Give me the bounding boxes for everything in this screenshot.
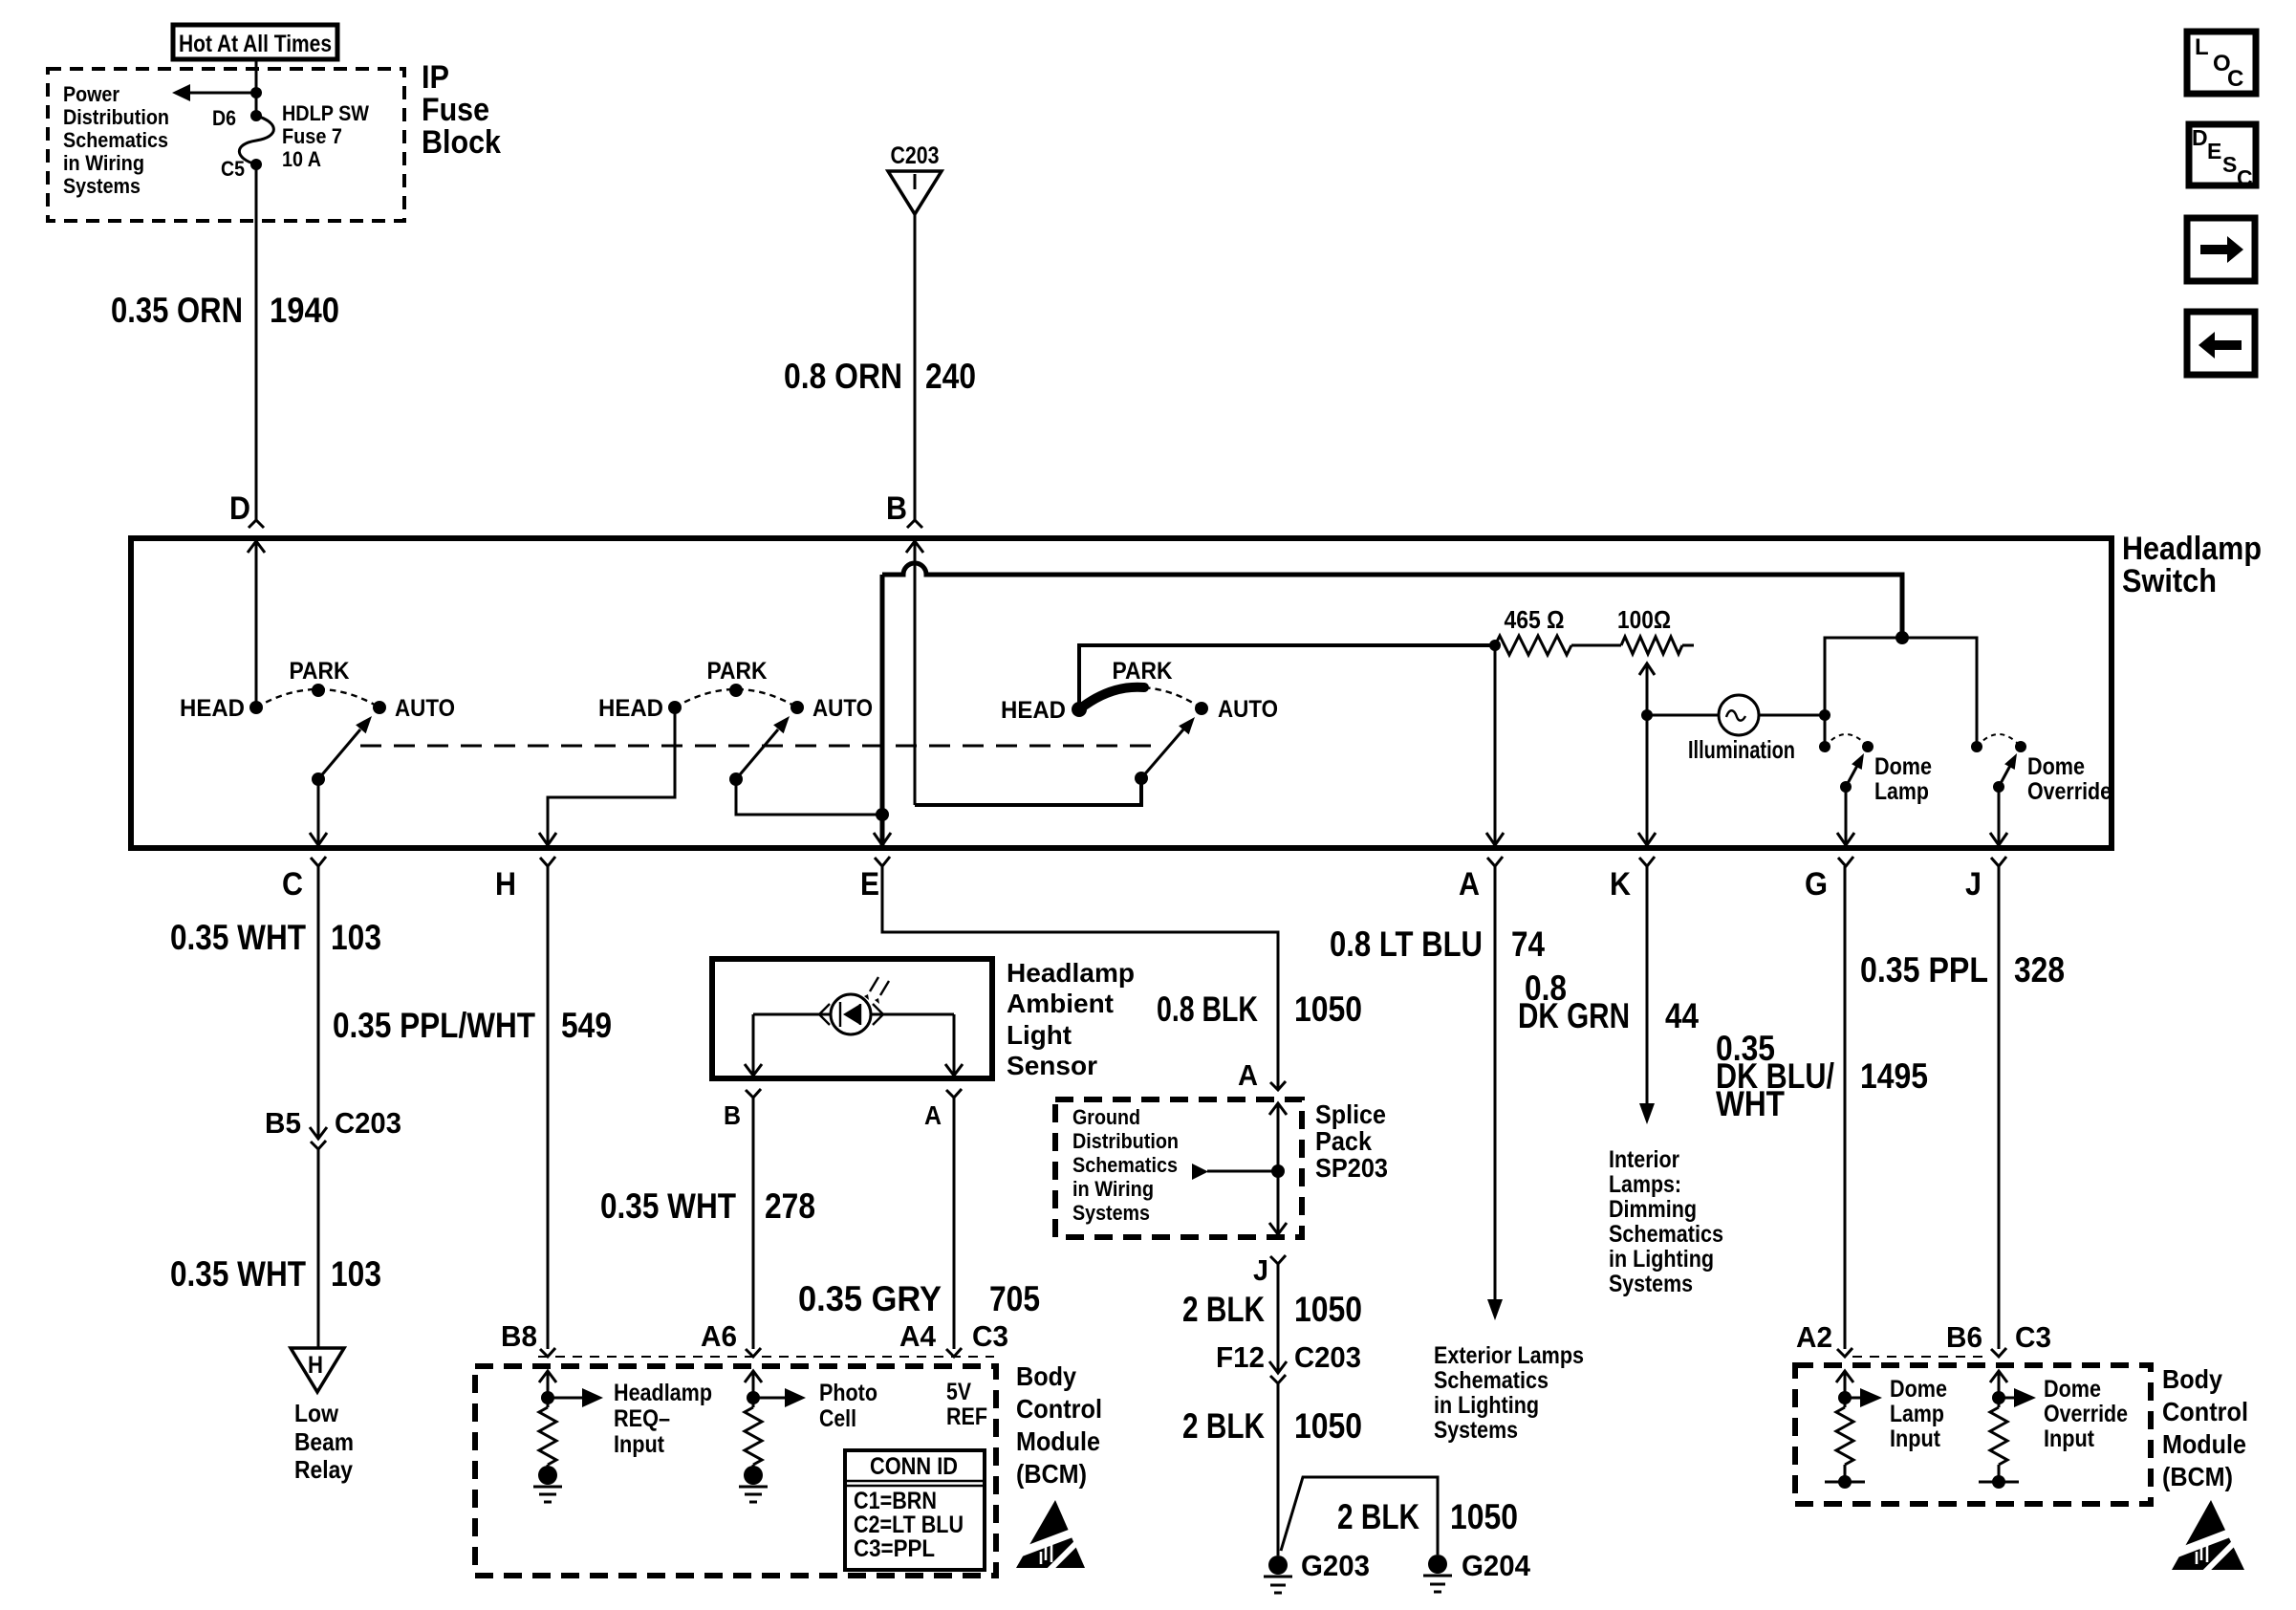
svg-text:328: 328 — [2014, 950, 2065, 990]
wire dome override wiper to terminal J — [1998, 787, 2001, 845]
BCM headlamp REQ input circuit — [533, 1371, 603, 1502]
switch 2 dashed arc — [675, 689, 797, 707]
BCM connector fork B6 — [1991, 1348, 2006, 1357]
wire label 0.35 WHT | 103 — [170, 918, 381, 957]
svg-text:Schematics: Schematics — [63, 128, 168, 152]
svg-text:1050: 1050 — [1294, 1290, 1362, 1329]
switch 1 AUTO contact — [373, 695, 455, 722]
fuse name label — [282, 101, 369, 171]
wire label 0.8 DK GRN | 44 — [1518, 968, 1699, 1035]
toolbar DESC button — [2189, 124, 2256, 190]
svg-text:Pack: Pack — [1315, 1126, 1372, 1156]
switch 1 dashed arc — [256, 689, 379, 707]
svg-text:Systems: Systems — [63, 174, 141, 198]
illumination lamp — [1647, 695, 1825, 764]
wire 2 BLK 1050 (F12 to G203) — [1277, 1383, 1280, 1556]
IP Fuse Block label — [422, 59, 501, 161]
sensor pin B internal arrow — [745, 1014, 762, 1076]
svg-text:B: B — [724, 1100, 741, 1130]
svg-text:2 BLK: 2 BLK — [1182, 1290, 1265, 1329]
svg-text:Ambient: Ambient — [1007, 989, 1114, 1018]
wire 0.35 ORN 1940 from fuse to terminal D — [255, 164, 258, 520]
svg-text:Splice: Splice — [1315, 1099, 1386, 1129]
svg-text:100Ω: 100Ω — [1617, 605, 1671, 634]
BCM connector fork B8 — [540, 1348, 555, 1357]
switch 3 dashed arc — [1144, 687, 1202, 708]
svg-text:C203: C203 — [1294, 1340, 1361, 1374]
BCM photo cell input circuit — [739, 1371, 806, 1502]
Ground Distribution note — [1072, 1105, 1179, 1225]
terminal G label and fork — [1805, 857, 1853, 903]
svg-text:E: E — [860, 866, 879, 903]
svg-text:Power: Power — [63, 82, 119, 106]
svg-text:B5: B5 — [265, 1106, 301, 1140]
svg-text:1050: 1050 — [1294, 1406, 1362, 1446]
BCM connector fork A4 — [946, 1348, 962, 1357]
5V REF label — [946, 1379, 987, 1430]
splice pack pin J label and fork — [1253, 1253, 1286, 1287]
sensor label — [1007, 958, 1135, 1080]
svg-text:Distribution: Distribution — [63, 105, 169, 129]
wire 0.35 GRY 705 (sensor A to BCM A4) — [953, 1098, 956, 1349]
svg-text:S: S — [2222, 152, 2237, 177]
terminal C arrow to edge — [310, 833, 327, 845]
svg-text:Fuse: Fuse — [422, 92, 489, 128]
svg-text:44: 44 — [1665, 996, 1699, 1035]
wire 0.35 WHT 278 (sensor B to BCM A6) — [752, 1098, 755, 1349]
sensor pin A fork and label — [924, 1089, 962, 1130]
IP Fuse Block dashed box — [48, 69, 404, 221]
Body Control Module label (left) — [1016, 1361, 1102, 1489]
svg-text:B6: B6 — [1946, 1320, 1982, 1354]
Splice Pack SP203 dashed box — [1055, 1099, 1302, 1237]
svg-text:AUTO: AUTO — [812, 695, 873, 722]
Body Control Module label (right) — [2162, 1364, 2248, 1491]
terminal A label and fork — [1459, 857, 1503, 903]
svg-text:HEAD: HEAD — [180, 695, 245, 722]
node K junction dot — [1641, 709, 1653, 721]
BCM dome override input circuit — [1979, 1371, 2036, 1489]
svg-text:WHT: WHT — [1716, 1084, 1785, 1123]
switch 1 wiper — [312, 716, 372, 786]
ground G204 — [1423, 1549, 1531, 1592]
svg-text:Fuse 7: Fuse 7 — [282, 124, 342, 148]
wire 0.35 PPL 328 (terminal J to BCM B6) — [1998, 866, 2001, 1349]
internal feed line to dome switches with hop over B — [882, 563, 1902, 638]
dome lamp input label — [1890, 1376, 1947, 1452]
BCM connector dashed line (right) — [1852, 1356, 1990, 1358]
svg-text:C: C — [2237, 165, 2253, 190]
svg-text:AUTO: AUTO — [395, 695, 455, 722]
terminal E label and fork — [860, 857, 890, 903]
svg-text:Schematics: Schematics — [1072, 1153, 1178, 1177]
terminal E arrow to edge — [874, 833, 891, 845]
Headlamp Switch box — [131, 538, 2112, 848]
svg-text:Lamps:: Lamps: — [1609, 1171, 1681, 1198]
svg-text:H: H — [308, 1352, 323, 1379]
toolbar left-arrow button — [2187, 312, 2255, 375]
wire node K to terminal K — [1646, 715, 1649, 845]
svg-text:Override: Override — [2027, 778, 2112, 805]
resistor 100 ohm (potentiometer) — [1617, 605, 1694, 654]
svg-text:G203: G203 — [1301, 1549, 1370, 1582]
svg-text:D: D — [2192, 125, 2208, 150]
svg-text:in Lighting: in Lighting — [1609, 1246, 1714, 1273]
svg-text:PARK: PARK — [1113, 658, 1173, 685]
svg-text:0.35 PPL/WHT: 0.35 PPL/WHT — [333, 1006, 535, 1045]
svg-text:PARK: PARK — [290, 658, 350, 685]
svg-text:240: 240 — [925, 357, 976, 396]
BCM dome lamp input circuit — [1825, 1371, 1882, 1489]
svg-text:A: A — [924, 1100, 942, 1130]
svg-text:A: A — [1238, 1058, 1258, 1092]
svg-text:C2=LT BLU: C2=LT BLU — [854, 1512, 964, 1538]
svg-text:Input: Input — [1890, 1425, 1941, 1452]
svg-text:Light: Light — [1007, 1020, 1072, 1050]
svg-text:0.8 ORN: 0.8 ORN — [784, 357, 902, 396]
toolbar right-arrow button — [2187, 218, 2255, 281]
wire label 0.35 WHT | 103 — [170, 1254, 381, 1294]
svg-text:CONN ID: CONN ID — [870, 1453, 958, 1480]
wire label 0.8 LT BLU | 74 — [1330, 925, 1545, 964]
svg-text:A6: A6 — [701, 1319, 737, 1353]
splice junction dot and arrow marker — [1192, 1164, 1285, 1180]
svg-text:(BCM): (BCM) — [2162, 1462, 2233, 1491]
ground G203 — [1264, 1549, 1370, 1593]
svg-text:2 BLK: 2 BLK — [1337, 1497, 1419, 1536]
wire switch 2 HEAD to terminal H — [548, 707, 675, 845]
wire 0.35 DK BLU/WHT 1495 (terminal G to BCM A2) — [1844, 866, 1847, 1349]
svg-text:(BCM): (BCM) — [1016, 1459, 1087, 1489]
wire label 0.35 DK BLU/WHT | 1495 — [1716, 1029, 1928, 1123]
svg-text:0.8 BLK: 0.8 BLK — [1157, 990, 1258, 1029]
svg-text:PARK: PARK — [707, 658, 768, 685]
svg-text:Control: Control — [2162, 1397, 2248, 1426]
svg-text:103: 103 — [331, 1254, 381, 1294]
resistor 465 ohm — [1495, 605, 1571, 655]
svg-text:0.35 WHT: 0.35 WHT — [600, 1186, 736, 1226]
wire label 0.35 PPL | 328 — [1860, 950, 2065, 990]
svg-text:C: C — [2227, 66, 2243, 92]
terminal D connector fork — [249, 520, 264, 528]
svg-text:A2: A2 — [1796, 1320, 1832, 1354]
svg-text:Override: Override — [2044, 1401, 2128, 1427]
svg-text:549: 549 — [561, 1006, 612, 1045]
svg-text:Beam: Beam — [294, 1427, 354, 1456]
sensor pin A internal arrow — [945, 1014, 963, 1076]
svg-text:HEAD: HEAD — [598, 695, 663, 722]
wire label 0.35 GRY | 705 — [798, 1279, 1040, 1318]
svg-text:Module: Module — [2162, 1429, 2246, 1459]
wire from Hot box into fuse block — [255, 59, 258, 116]
svg-text:Dimming: Dimming — [1609, 1196, 1697, 1223]
svg-text:in Lighting: in Lighting — [1434, 1392, 1539, 1419]
wire 0.8 ORN 240 from C203 to terminal B — [914, 214, 917, 520]
svg-text:C203: C203 — [335, 1106, 401, 1140]
terminal K arrow to edge — [1638, 833, 1656, 845]
ESD symbol (right) — [2172, 1500, 2244, 1573]
svg-text:Photo: Photo — [819, 1380, 877, 1406]
wire label 2 BLK | 1050 — [1182, 1406, 1362, 1446]
svg-text:10 A: 10 A — [282, 147, 321, 171]
svg-text:IP: IP — [422, 59, 449, 96]
splice pack pin A label and fork — [1238, 1058, 1286, 1092]
wire wiper 2 to node E — [736, 779, 882, 815]
lamp junction dot — [1819, 709, 1830, 721]
switch 3 HEAD contact — [1001, 697, 1087, 724]
svg-text:705: 705 — [989, 1279, 1040, 1318]
wire wiper 1 to terminal C — [317, 779, 320, 845]
Body Control Module dashed box (right) — [1795, 1365, 2151, 1504]
switch 2 HEAD contact — [598, 695, 682, 722]
node E junction dot — [876, 808, 889, 821]
dome feed wires — [1825, 638, 1977, 747]
dome override switch — [1971, 734, 2112, 805]
terminal J arrow to edge — [1990, 833, 2007, 845]
svg-text:Control: Control — [1016, 1394, 1102, 1424]
BCM connector fork A2 — [1837, 1348, 1852, 1357]
svg-text:AUTO: AUTO — [1218, 696, 1278, 723]
svg-text:Exterior Lamps: Exterior Lamps — [1434, 1342, 1584, 1369]
wire label 2 BLK | 1050 — [1337, 1497, 1518, 1536]
Hot At All Times box — [173, 25, 337, 59]
svg-text:278: 278 — [765, 1186, 815, 1226]
svg-text:Lamp: Lamp — [1890, 1401, 1944, 1427]
svg-text:Low: Low — [294, 1399, 339, 1427]
splice pack internal wire with arrows — [1269, 1103, 1287, 1234]
svg-text:Block: Block — [422, 124, 501, 161]
svg-text:103: 103 — [331, 918, 381, 957]
svg-text:Illumination: Illumination — [1688, 735, 1795, 764]
photo cell symbol — [753, 977, 954, 1034]
svg-text:Systems: Systems — [1072, 1201, 1150, 1225]
svg-text:C3: C3 — [2015, 1320, 2051, 1354]
svg-text:Systems: Systems — [1434, 1417, 1518, 1444]
photo cell label — [819, 1380, 877, 1432]
svg-text:Schematics: Schematics — [1434, 1367, 1549, 1394]
svg-text:Dome: Dome — [2027, 753, 2085, 780]
svg-text:C1=BRN: C1=BRN — [854, 1488, 937, 1514]
svg-text:Headlamp: Headlamp — [2122, 531, 2262, 567]
svg-text:C: C — [282, 866, 303, 903]
Power Distribution Schematics note — [63, 82, 169, 198]
wire label 0.35 WHT | 278 — [600, 1186, 815, 1226]
wire 0.35 WHT 103 (B5 to low beam relay) — [317, 1149, 320, 1347]
terminal K label and fork — [1610, 857, 1655, 903]
mechanical linkage dashed line — [360, 745, 1161, 748]
svg-text:C203: C203 — [891, 142, 940, 169]
wire label 0.8 BLK | 1050 — [1157, 990, 1362, 1029]
inline connector F12 C203 — [1216, 1340, 1361, 1383]
terminal J label and fork — [1965, 857, 2006, 903]
terminal C label and fork — [282, 857, 326, 903]
svg-text:D: D — [229, 490, 250, 527]
svg-text:0.35 PPL: 0.35 PPL — [1860, 950, 1988, 990]
Splice Pack label — [1315, 1099, 1388, 1183]
svg-text:G: G — [1805, 866, 1828, 903]
wire 0.8 LT BLU 74 (terminal A) — [1487, 866, 1503, 1320]
svg-text:HDLP SW: HDLP SW — [282, 101, 369, 125]
svg-text:H: H — [495, 866, 516, 903]
dome lamp switch — [1819, 734, 1932, 805]
Interior Lamps note — [1609, 1146, 1723, 1297]
svg-text:REF: REF — [946, 1403, 987, 1430]
svg-text:C5: C5 — [221, 157, 245, 181]
wire 0.35 PPL/WHT 549 (terminal H to BCM B8) — [547, 866, 550, 1349]
terminal D arrow into switch — [248, 541, 265, 703]
connector C203 triangle (top) — [888, 142, 942, 214]
svg-text:Headlamp: Headlamp — [1007, 958, 1135, 988]
switch 2 AUTO contact — [791, 695, 873, 722]
svg-text:1050: 1050 — [1450, 1497, 1518, 1536]
dome feed junction dot — [1895, 631, 1909, 644]
svg-text:B8: B8 — [501, 1319, 537, 1353]
svg-text:Dome: Dome — [2044, 1376, 2101, 1403]
svg-text:Interior: Interior — [1609, 1146, 1679, 1173]
svg-text:Headlamp: Headlamp — [614, 1380, 712, 1406]
wire dome lamp wiper to terminal G — [1845, 787, 1848, 845]
svg-text:Schematics: Schematics — [1609, 1221, 1723, 1248]
node A junction dot — [1489, 640, 1501, 651]
svg-text:Dome: Dome — [1874, 753, 1932, 780]
svg-text:5V: 5V — [946, 1379, 971, 1405]
branch wire to G204 — [1281, 1477, 1438, 1555]
svg-text:in Wiring: in Wiring — [63, 151, 144, 175]
svg-text:DK GRN: DK GRN — [1518, 996, 1630, 1035]
switch 2 PARK contact — [707, 658, 768, 697]
svg-text:F12: F12 — [1216, 1340, 1265, 1374]
svg-text:Hot At All Times: Hot At All Times — [179, 31, 332, 57]
wire label 0.35 ORN | 1940 — [111, 291, 339, 330]
svg-text:Input: Input — [614, 1431, 665, 1458]
svg-text:0.35 WHT: 0.35 WHT — [170, 918, 306, 957]
svg-text:74: 74 — [1511, 925, 1545, 964]
Headlamp Ambient Light Sensor box — [712, 959, 992, 1078]
terminal B arrow into switch — [906, 541, 923, 805]
wire 0.8 BLK 1050 (terminal E to splice pack A) — [882, 866, 1278, 1090]
svg-text:C3=PPL: C3=PPL — [854, 1535, 935, 1562]
svg-text:0.35 GRY: 0.35 GRY — [798, 1279, 942, 1318]
svg-text:SP203: SP203 — [1315, 1153, 1388, 1183]
svg-text:K: K — [1610, 866, 1631, 903]
inline connector B5 C203 — [265, 1106, 401, 1149]
svg-text:J: J — [1965, 866, 1982, 903]
wire terminal A drop — [1494, 645, 1497, 845]
svg-text:Module: Module — [1016, 1426, 1100, 1456]
svg-text:1495: 1495 — [1860, 1056, 1928, 1096]
switch 2 wiper — [729, 716, 790, 786]
toolbar LOC button — [2187, 32, 2256, 94]
arrow to power distribution — [172, 84, 262, 101]
switch 3 AUTO contact — [1195, 696, 1278, 723]
terminal B connector fork — [907, 520, 922, 528]
svg-text:465 Ω: 465 Ω — [1505, 605, 1565, 634]
svg-text:Sensor: Sensor — [1007, 1051, 1097, 1080]
svg-text:in Wiring: in Wiring — [1072, 1177, 1154, 1201]
svg-text:Lamp: Lamp — [1874, 778, 1929, 805]
terminal A arrow to edge — [1486, 833, 1504, 845]
BCM connector dashed line — [538, 1356, 994, 1358]
svg-text:A4: A4 — [899, 1319, 937, 1353]
terminal H arrow to edge — [539, 833, 556, 845]
svg-text:1050: 1050 — [1294, 990, 1362, 1029]
fuse HDLP SW Fuse 7 10A — [239, 110, 273, 170]
svg-text:Systems: Systems — [1609, 1271, 1693, 1297]
svg-text:G204: G204 — [1462, 1549, 1531, 1582]
svg-text:0.35 WHT: 0.35 WHT — [170, 1254, 306, 1294]
svg-text:L: L — [2195, 34, 2209, 60]
svg-text:1940: 1940 — [270, 291, 339, 330]
wire label 0.35 PPL/WHT | 549 — [333, 1006, 612, 1045]
wire B feed to switch 3 wiper — [915, 778, 1141, 805]
svg-text:J: J — [1253, 1253, 1268, 1287]
ESD symbol (left) — [1016, 1500, 1085, 1571]
Exterior Lamps note — [1434, 1342, 1584, 1444]
svg-text:Body: Body — [2162, 1364, 2222, 1394]
switch 1 HEAD contact — [180, 695, 263, 722]
svg-text:Dome: Dome — [1890, 1376, 1947, 1403]
terminal H label and fork — [495, 857, 555, 903]
switch 1 PARK contact — [290, 658, 350, 697]
svg-text:2 BLK: 2 BLK — [1182, 1406, 1265, 1446]
svg-text:C3: C3 — [972, 1319, 1008, 1353]
svg-text:B: B — [886, 490, 907, 527]
dome override input label — [2044, 1376, 2128, 1452]
CONN ID table — [845, 1450, 985, 1570]
svg-text:A: A — [1459, 866, 1480, 903]
Headlamp Switch label — [2122, 531, 2262, 599]
Body Control Module dashed box (left) — [475, 1366, 996, 1576]
terminal G arrow to edge — [1837, 833, 1854, 845]
sensor pin B fork and label — [724, 1089, 761, 1130]
wire label 2 BLK | 1050 — [1182, 1290, 1362, 1329]
low beam relay connector triangle H — [291, 1348, 344, 1392]
wire switch 3 HEAD to resistor line — [1079, 645, 1495, 709]
BCM connector fork A6 — [746, 1348, 761, 1357]
potentiometer wiper arrow — [1639, 664, 1655, 715]
svg-text:Input: Input — [2044, 1425, 2095, 1452]
switch 3 wiper — [1135, 717, 1195, 785]
svg-text:D6: D6 — [212, 106, 236, 130]
svg-text:Ground: Ground — [1072, 1105, 1140, 1129]
svg-text:HEAD: HEAD — [1001, 697, 1066, 724]
svg-text:Switch: Switch — [2122, 563, 2217, 599]
internal feed line E vertical — [880, 575, 885, 845]
svg-text:Cell: Cell — [819, 1405, 856, 1432]
svg-text:Body: Body — [1016, 1361, 1076, 1391]
svg-text:Relay: Relay — [294, 1455, 353, 1484]
wire label 0.8 ORN | 240 — [784, 357, 976, 396]
wire 0.35 WHT 103 (terminal C to B5) — [317, 866, 320, 1139]
wire 2 BLK 1050 (splice to F12) — [1277, 1264, 1280, 1373]
switch 3 bold arc (HEAD position) — [1079, 687, 1144, 709]
svg-text:Distribution: Distribution — [1072, 1129, 1179, 1153]
wire between resistors — [1571, 644, 1621, 647]
svg-text:0.35 ORN: 0.35 ORN — [111, 291, 243, 330]
wire 0.8 DK GRN 44 (terminal K) — [1639, 866, 1655, 1124]
svg-text:0.8 LT BLU: 0.8 LT BLU — [1330, 925, 1483, 964]
headlamp REQ input label — [614, 1380, 712, 1458]
svg-text:REQ–: REQ– — [614, 1405, 670, 1432]
svg-text:E: E — [2207, 139, 2221, 163]
low beam relay label — [294, 1399, 354, 1484]
